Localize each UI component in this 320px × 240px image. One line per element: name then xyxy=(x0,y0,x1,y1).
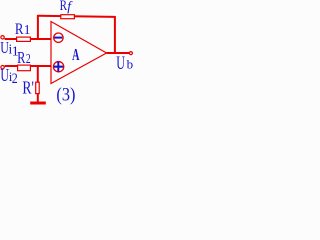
svg-text:R: R xyxy=(15,21,24,38)
svg-text:U: U xyxy=(116,53,125,74)
svg-text:1: 1 xyxy=(24,22,31,37)
svg-text:A: A xyxy=(72,45,79,64)
svg-text:2: 2 xyxy=(12,71,18,87)
svg-text:b: b xyxy=(127,56,134,71)
svg-text:R': R' xyxy=(22,78,34,98)
svg-text:1: 1 xyxy=(12,45,19,60)
svg-text:2: 2 xyxy=(26,52,31,67)
svg-text:(3): (3) xyxy=(56,86,75,105)
